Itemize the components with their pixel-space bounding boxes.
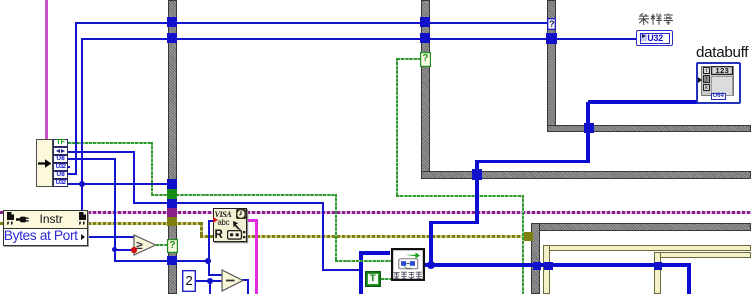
subtract node [221, 269, 244, 292]
databuff panel [701, 66, 735, 97]
tunnel B1 wire U8 [167, 17, 177, 27]
VISA wire stub left edge [0, 211, 4, 214]
structure B4 top border [531, 223, 751, 231]
boolean wire vertical mid [396, 58, 398, 196]
VISA read italic text [215, 210, 232, 219]
wire enum row2 horizontal 3 [322, 269, 361, 271]
databuff label [696, 44, 748, 61]
wire U32 vertical up [81, 38, 83, 185]
U32 indicator arrow strip [641, 34, 647, 41]
wire enum row2 horizontal [68, 151, 135, 153]
wire enum row2 vertical [133, 151, 135, 203]
unbundle node U2 [36, 139, 53, 187]
wire TF boolean into express vi [335, 260, 391, 262]
boolean constant T inner [368, 274, 378, 284]
tunnel B2 bottom array [472, 169, 482, 180]
terminal U32 b [53, 179, 68, 187]
wire TF boolean vertical 2 [335, 194, 337, 261]
array wire vertical through tunnel [586, 102, 590, 162]
wire byte count horizontal [114, 260, 209, 262]
U32 indicator arrow [642, 34, 646, 38]
wire U32 horizontal to indicator [81, 38, 636, 40]
inner structure B5 top border [543, 245, 751, 251]
VISA property node Instr [3, 210, 88, 247]
VISA reel icon [227, 230, 246, 240]
tunnel B4 array [533, 262, 542, 270]
tunnel B3 wire U32 [546, 33, 556, 44]
boolean constant T [365, 271, 381, 287]
error wire tunnel [524, 232, 533, 241]
tunnel B1 error [167, 217, 177, 226]
U32 indicator sample rate [636, 30, 673, 45]
wire TF boolean horizontal 2 [151, 194, 337, 196]
error wire after VISA read [247, 235, 526, 238]
wire bytes at port to comparison [86, 236, 135, 238]
string wire vertical [255, 219, 258, 294]
tunnel B1 boolean [167, 189, 177, 199]
Instr label [40, 212, 63, 226]
array wire vertical from tunnel [475, 161, 479, 223]
VISA clock badge [236, 209, 246, 219]
error wire jog down [200, 222, 203, 236]
wire subtract output [242, 279, 249, 281]
error wire into VISA read [200, 235, 213, 238]
wire comparison output boolean [156, 244, 169, 246]
tunnel B1 byte count [167, 256, 177, 266]
express vi input1 wire vertical [359, 252, 363, 294]
wire TF boolean horizontal [68, 142, 153, 144]
databuff element area [711, 76, 732, 95]
error wire stub left edge [0, 222, 4, 225]
VISA R letter [215, 229, 223, 241]
wire refnum down to property node [81, 184, 83, 211]
sample rate label glyphs [638, 13, 674, 26]
tunnel B1 row6 [167, 179, 177, 189]
coercion dot [131, 247, 136, 252]
tunnel B6 array [654, 262, 662, 270]
structure B4 left border [531, 223, 540, 294]
VISA read node U3 [213, 208, 247, 242]
express vi icon boxes [398, 258, 419, 270]
wire byte count stub into VISA [208, 220, 215, 222]
case structure B2 left border [421, 0, 430, 179]
databuff input arrow [698, 77, 702, 83]
case selector B2 [420, 52, 431, 66]
wire enum row2 vertical 2 [322, 202, 324, 270]
express vi green arrow [405, 252, 421, 259]
string wire from VISA read [247, 219, 258, 222]
VISA red input triangle [213, 217, 218, 223]
refnum icon left [6, 212, 15, 226]
express vi output wire [425, 263, 691, 267]
wire TF boolean vertical [151, 142, 153, 195]
U32 indicator text [647, 33, 663, 43]
array wire vertical to express vi [429, 221, 433, 265]
Bytes at Port label [4, 228, 78, 243]
VISA wire after read node [247, 211, 751, 214]
wire U8 row3 horizontal [68, 158, 115, 160]
wire constant 2 to subtract [196, 280, 222, 282]
array wire to databuff [588, 100, 720, 104]
array wire horizontal mid [475, 160, 590, 164]
databuff index j [703, 75, 710, 83]
wire junction down offscreen [209, 281, 211, 294]
express vi caption glyphs [393, 271, 423, 280]
case selector B3 [547, 18, 556, 30]
wire U8 horizontal to case selector [75, 22, 549, 24]
junction dot row6 [79, 181, 85, 187]
case structure B3 left border [547, 0, 557, 132]
terminal U8 b [53, 171, 68, 179]
tunnel B3 bottom array [584, 123, 593, 133]
VISA cursor arrow [232, 221, 244, 233]
plug icon [16, 216, 31, 223]
boolean wire horizontal mid [396, 195, 523, 197]
inner structure B6 left border [654, 252, 662, 294]
terminal U32 a [53, 163, 68, 171]
error wire property node to jog [88, 222, 203, 225]
databuff index k [703, 84, 710, 92]
wire into subtract x input [208, 274, 223, 276]
tunnel B2 wire U8 [420, 17, 430, 27]
while/case structure left border B1 [168, 0, 178, 294]
terminal enum [53, 147, 68, 155]
wire U8 row5 stub [68, 173, 77, 175]
terminal TF [53, 139, 68, 147]
wire down to subtract x input [208, 261, 210, 275]
boolean wire vertical offscreen [522, 195, 524, 294]
terminal U32 a stub [68, 166, 70, 168]
express vi input1 wire [359, 251, 390, 255]
junction dot express vi output [427, 261, 435, 269]
case structure B3 bottom border [547, 125, 751, 132]
unbundle arrow [38, 159, 52, 168]
databuff 123 box [711, 66, 733, 76]
junction dot constant 2 [207, 278, 213, 284]
tunnel B1 enum [167, 199, 177, 208]
cluster wire into unbundle [45, 0, 48, 139]
databuff U64 tag [711, 93, 726, 100]
tunnel B1 wire U32 [167, 33, 177, 43]
property node output arrow [81, 234, 85, 240]
refnum icon right [78, 212, 87, 226]
svg-text:≥: ≥ [136, 240, 143, 252]
wire into comparison lower input [114, 249, 134, 251]
tunnel B5 array [544, 262, 552, 270]
array wire horizontal left [429, 221, 479, 225]
databuff index i [703, 67, 710, 75]
numeric constant 2 [182, 270, 196, 292]
terminal U8 a [53, 155, 68, 163]
tunnel B1 visa [167, 208, 177, 217]
comparison node greater or equal [133, 234, 157, 256]
express vi output wire down [687, 265, 691, 294]
wire U8 row3 vertical [114, 158, 116, 261]
case selector B1 [167, 239, 178, 253]
inner structure B6 top border [654, 252, 751, 258]
databuff array indicator [696, 62, 742, 105]
VISA wire property node to read [88, 211, 214, 214]
unbundle terminals frame [53, 139, 68, 187]
wire enum row2 horizontal 2 [133, 202, 324, 204]
U32 indicator inner [640, 33, 671, 44]
express vi type cast [391, 248, 425, 281]
junction dot byte count [205, 258, 211, 264]
junction dot row3 [112, 247, 117, 252]
boolean wire from case selector [397, 58, 421, 60]
inner structure B5 left border [543, 245, 549, 294]
case structure B2 bottom border [421, 171, 751, 179]
boolean constant T output wire [381, 278, 392, 280]
wire subtract output down [247, 279, 249, 294]
VISA abc text [218, 218, 230, 227]
wire byte count vertical to VISA [208, 220, 210, 261]
wire U8 vertical to top [75, 22, 77, 175]
tunnel B2 wire U32 [420, 33, 430, 43]
property node header [4, 211, 87, 229]
wire U32 row6 horizontal [68, 183, 175, 185]
